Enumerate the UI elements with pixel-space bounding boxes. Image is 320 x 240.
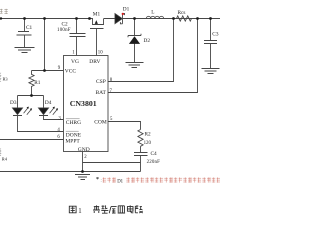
chip texts xyxy=(65,59,107,153)
svg-text:CSP: CSP xyxy=(96,79,106,85)
LED D4 xyxy=(39,96,64,120)
svg-text:D2: D2 xyxy=(144,38,151,44)
svg-text:MPPT: MPPT xyxy=(65,138,80,144)
svg-text:4: 4 xyxy=(57,128,60,133)
wire COM to R2 xyxy=(108,122,141,130)
wire chip GND lead xyxy=(82,152,84,172)
wire rail to VCC drop xyxy=(32,19,64,71)
junction C3 top xyxy=(209,17,212,20)
resistor R4 fragment xyxy=(0,149,1,156)
svg-text:Rcs: Rcs xyxy=(178,10,186,16)
wire top rail xyxy=(0,18,220,20)
svg-text:10: 10 xyxy=(98,51,103,56)
junction CSP node xyxy=(172,17,175,20)
junction M1 source xyxy=(88,17,91,20)
svg-text:D1: D1 xyxy=(123,6,130,12)
junction BAT node xyxy=(196,17,199,20)
resistor R3 fragment xyxy=(0,73,1,82)
svg-text:D3: D3 xyxy=(10,100,17,106)
svg-text:D1: D1 xyxy=(117,179,123,184)
svg-text:2: 2 xyxy=(84,155,87,160)
ground (C1) xyxy=(15,48,35,53)
capacitor C1 xyxy=(17,19,32,48)
svg-text:C4: C4 xyxy=(151,151,158,157)
node 电源 (clipped input label) xyxy=(0,9,8,14)
junction D2 cathode node xyxy=(133,17,136,20)
junction VCC branch xyxy=(43,17,46,20)
wire bottom rail xyxy=(0,171,141,173)
wire MPPT xyxy=(0,139,64,141)
node input terminal xyxy=(0,17,2,19)
red D1 reference xyxy=(117,179,123,184)
red asterisk dot at D1 xyxy=(122,13,124,15)
svg-text:120: 120 xyxy=(144,141,152,146)
resistor Rcs xyxy=(177,16,192,21)
svg-text:C1: C1 xyxy=(26,25,33,31)
svg-text:1: 1 xyxy=(78,208,81,215)
svg-text:C3: C3 xyxy=(212,31,219,37)
svg-text:VG: VG xyxy=(71,59,79,65)
red footnote fake CJK strokes xyxy=(103,177,221,182)
svg-text:COM: COM xyxy=(94,119,107,125)
wire gnd loop xyxy=(83,162,141,164)
LED D3 xyxy=(13,96,64,132)
resistor R2 xyxy=(138,130,143,147)
capacitor C2 xyxy=(70,19,86,56)
wire LED top xyxy=(18,95,44,97)
svg-text:R3: R3 xyxy=(3,76,9,81)
svg-text:8: 8 xyxy=(110,78,113,83)
junction C2 top xyxy=(75,17,78,20)
svg-text:BAT: BAT xyxy=(96,90,107,96)
caption 图1 典型应用电路 (fake CJK strokes) xyxy=(69,206,76,213)
svg-text:CN3801: CN3801 xyxy=(70,99,97,108)
svg-text:220nF: 220nF xyxy=(147,160,161,165)
svg-text:DRV: DRV xyxy=(89,59,100,65)
inductor L xyxy=(146,16,163,18)
svg-text:1: 1 xyxy=(72,51,75,56)
wire BAT riser xyxy=(108,19,198,93)
junction R1 top / VCC wire xyxy=(43,69,46,72)
ground (main) xyxy=(75,175,90,180)
svg-text:C2: C2 xyxy=(62,22,69,28)
capacitor C4 xyxy=(134,146,148,171)
IC U1 CN3801 body xyxy=(64,56,109,152)
svg-text:D4: D4 xyxy=(45,100,52,106)
junction C1 top xyxy=(23,17,26,20)
svg-text:100nF: 100nF xyxy=(57,28,71,33)
ground (D2) xyxy=(126,63,144,68)
svg-text:M1: M1 xyxy=(93,11,101,17)
svg-text:R2: R2 xyxy=(145,131,152,137)
svg-text::: : xyxy=(101,178,102,183)
diode D2 (Schottky) xyxy=(128,19,141,63)
CHRG and DONE overlines xyxy=(66,119,80,131)
svg-text:CHRG: CHRG xyxy=(66,120,81,126)
pin numbers xyxy=(57,51,113,160)
diode D1 (Schottky) xyxy=(115,13,123,23)
red footnote xyxy=(96,177,102,183)
junction R1 bottom / LED anodes xyxy=(30,94,33,97)
svg-text:R4: R4 xyxy=(2,157,8,162)
svg-text:7: 7 xyxy=(110,89,113,94)
wire CSP riser xyxy=(108,19,174,82)
svg-text:GND: GND xyxy=(78,147,90,153)
svg-text:3: 3 xyxy=(58,116,61,121)
ground (C3) xyxy=(202,69,220,74)
junction GND node xyxy=(81,170,84,173)
svg-text:R1: R1 xyxy=(34,80,41,86)
svg-text:VCC: VCC xyxy=(65,68,77,74)
svg-text:*: * xyxy=(96,177,99,183)
svg-text:L: L xyxy=(151,10,154,16)
capacitor C3 xyxy=(204,19,217,69)
transistor M1 xyxy=(90,19,104,56)
resistor R1 xyxy=(29,71,34,96)
